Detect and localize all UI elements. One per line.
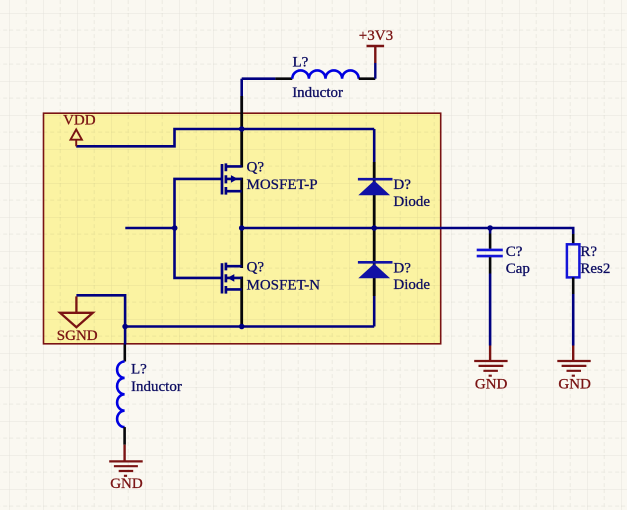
node mid rail / diode column xyxy=(371,225,377,231)
wire bottom rail xyxy=(125,325,374,328)
node bottom rail / Q2 source xyxy=(239,324,245,330)
pin column diodes xyxy=(373,129,376,327)
svg-text:Q?: Q? xyxy=(247,159,265,175)
node gate bus / input xyxy=(172,225,178,231)
svg-text:GND: GND xyxy=(475,377,508,393)
node mid rail / Q column xyxy=(239,225,245,231)
svg-text:Inductor: Inductor xyxy=(292,85,343,101)
resistor R1 xyxy=(567,244,580,345)
svg-text:R?: R? xyxy=(580,244,597,260)
wire SGND path xyxy=(76,295,125,326)
svg-text:L?: L? xyxy=(131,361,147,377)
node mid rail / C1 xyxy=(487,225,493,231)
transistor Q2 MOSFET-N xyxy=(222,263,242,294)
wire VDD to top rail xyxy=(76,129,374,146)
svg-text:Cap: Cap xyxy=(506,261,530,277)
svg-text:GND: GND xyxy=(110,476,143,492)
junction dots xyxy=(122,126,493,329)
power SGND xyxy=(60,296,93,327)
diode D1 xyxy=(358,179,393,195)
capacitor C1 xyxy=(477,228,503,346)
node top rail / L1 xyxy=(239,126,245,132)
svg-text:VDD: VDD xyxy=(63,113,96,129)
svg-text:GND: GND xyxy=(558,377,591,393)
power VDD xyxy=(71,130,82,147)
inductor L2 bottom xyxy=(117,327,125,445)
pin R1 top xyxy=(572,234,575,244)
svg-text:D?: D? xyxy=(393,260,411,276)
node bottom rail / SGND-L2 xyxy=(122,324,128,330)
yellow compile-mask block xyxy=(44,113,441,344)
inductor L1 top xyxy=(242,70,376,78)
svg-text:Q?: Q? xyxy=(247,259,265,275)
pin column Q1/Q2 drain-source xyxy=(240,79,243,96)
transistor Q1 MOSFET-P xyxy=(222,163,242,194)
svg-text:MOSFET-N: MOSFET-N xyxy=(247,277,321,293)
svg-text:+3V3: +3V3 xyxy=(359,28,393,44)
svg-text:Diode: Diode xyxy=(393,277,430,293)
svg-text:Diode: Diode xyxy=(393,194,430,210)
svg-text:L?: L? xyxy=(293,54,309,70)
svg-text:MOSFET-P: MOSFET-P xyxy=(247,177,318,193)
wire gate bus xyxy=(175,179,222,278)
ground GND under R1 xyxy=(557,346,590,376)
wire input stub xyxy=(125,227,174,230)
svg-text:D?: D? xyxy=(393,177,411,193)
svg-text:Inductor: Inductor xyxy=(131,379,182,395)
wire mid output rail xyxy=(242,228,574,234)
svg-text:C?: C? xyxy=(506,244,523,260)
svg-text:Res2: Res2 xyxy=(580,261,610,277)
ground GND under C1 xyxy=(474,346,507,376)
diode D2 xyxy=(358,262,393,278)
power +3V3 xyxy=(367,46,385,79)
svg-text:SGND: SGND xyxy=(57,328,98,344)
ground GND bottom-left xyxy=(109,445,143,476)
